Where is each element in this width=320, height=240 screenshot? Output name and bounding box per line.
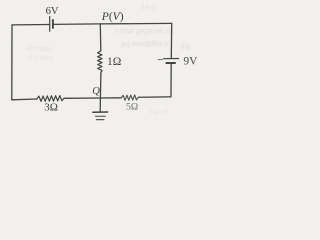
svg-text:dA slow: dA slow xyxy=(28,53,55,62)
wire left side xyxy=(11,25,13,100)
wire right side lower xyxy=(170,63,172,97)
wire node P to top-right corner xyxy=(100,22,171,25)
resistor R3 5-ohm zigzag xyxy=(121,95,138,100)
ground bar 2 xyxy=(96,115,106,117)
svg-text:1Ω: 1Ω xyxy=(107,56,121,68)
svg-text:Fo: Fo xyxy=(181,41,190,51)
svg-text:ew sd: ew sd xyxy=(150,107,168,116)
battery V2 9V long plate xyxy=(164,58,179,60)
resistor R2 1-ohm zigzag xyxy=(98,51,103,72)
svg-text:Q: Q xyxy=(92,86,100,97)
wire node Q to 5-ohm resistor xyxy=(100,97,121,99)
ground bar 1 xyxy=(93,111,108,113)
wire 5-ohm to bottom-right corner xyxy=(138,96,171,99)
svg-text:9V: 9V xyxy=(183,55,198,67)
wire 3-ohm to node Q xyxy=(64,97,100,99)
faint page bleed-through artifacts (scan) xyxy=(27,2,190,116)
svg-text:r: r xyxy=(178,55,181,64)
svg-text:pq ouedztba tr: pq ouedztba tr xyxy=(121,38,170,48)
wire right side upper xyxy=(170,23,172,58)
wire bottom-left corner to 3-ohm resistor xyxy=(12,98,37,101)
wire node P down to 1-ohm resistor xyxy=(99,24,102,51)
svg-text:s mur piqsnon sti: s mur piqsnon sti xyxy=(115,25,174,35)
ground bar 3 xyxy=(97,119,104,121)
svg-text:P(V): P(V) xyxy=(101,11,124,23)
svg-text:5Ω: 5Ω xyxy=(126,101,138,112)
svg-text:rl=cons: rl=cons xyxy=(27,44,51,53)
wire node Q down to ground xyxy=(99,98,101,112)
svg-text:3Ω: 3Ω xyxy=(44,101,58,113)
wire top-left to 6V battery xyxy=(12,24,50,26)
svg-text:3 s o: 3 s o xyxy=(140,2,155,11)
battery V1 6V long plate xyxy=(49,17,51,32)
battery V2 9V short plate xyxy=(166,62,175,64)
minus dash left of 9V battery xyxy=(158,59,162,61)
wire 1-ohm resistor to node Q xyxy=(99,72,102,98)
battery V1 6V short plate xyxy=(52,20,54,28)
svg-text:6V: 6V xyxy=(46,6,59,17)
resistor R1 3-ohm zigzag xyxy=(37,96,64,102)
wire 6V battery to node P xyxy=(53,23,100,26)
